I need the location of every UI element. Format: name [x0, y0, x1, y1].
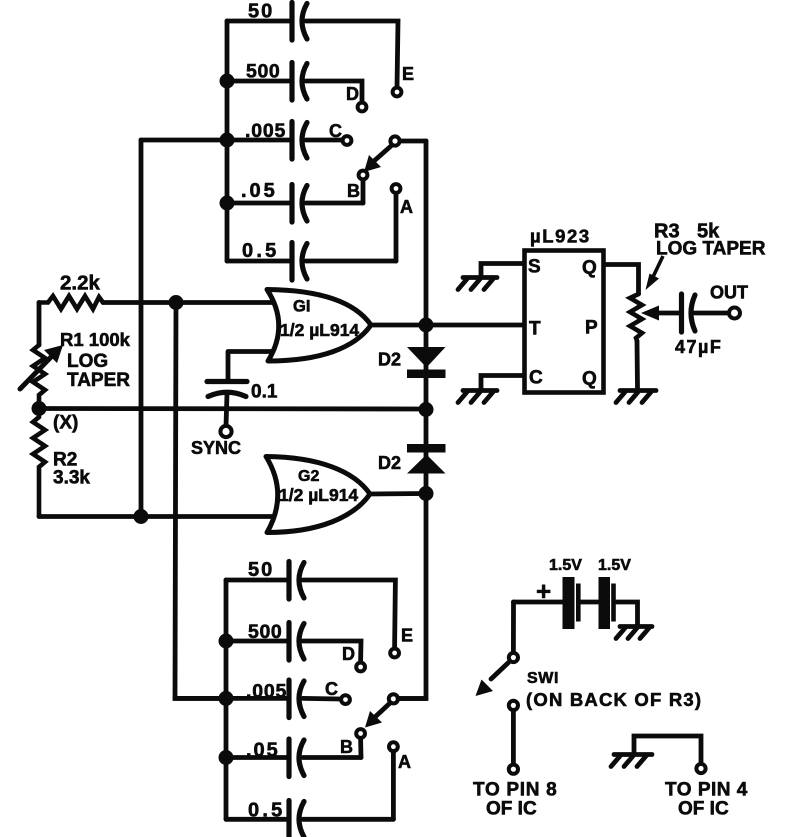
svg-text:1/2 µL914: 1/2 µL914: [279, 485, 358, 505]
svg-text:3.3k: 3.3k: [53, 468, 90, 489]
capacitor .05 (bottom): [289, 739, 304, 777]
contact A (bottom): [389, 742, 398, 751]
capacitor 50 (bottom): [289, 562, 304, 600]
svg-text:D2: D2: [378, 453, 401, 473]
svg-text:50: 50: [248, 1, 274, 23]
wire .005 row left (bottom): [175, 696, 287, 701]
wire 50 row left: [227, 19, 290, 24]
svg-text:.05: .05: [246, 740, 280, 762]
svg-text:SWI: SWI: [527, 670, 559, 687]
wire 2.2k row to G1 input: [103, 300, 276, 305]
wire 0.5 row right (bottom): [303, 817, 393, 822]
svg-text:Q: Q: [582, 258, 597, 279]
wire .05 row left: [227, 201, 290, 206]
wire B to .05 row: [361, 180, 366, 203]
svg-text:P: P: [585, 318, 598, 339]
capacitor 50: [292, 3, 307, 41]
wire battery to SW1: [511, 602, 516, 651]
wire .05 row right: [306, 201, 363, 206]
svg-text:E: E: [402, 64, 414, 84]
contact C: [343, 136, 352, 145]
svg-text:Q: Q: [582, 369, 597, 390]
potentiometer R3: [630, 294, 681, 341]
svg-text:OUT: OUT: [710, 283, 748, 303]
svg-text:50: 50: [248, 559, 274, 581]
svg-text:TO PIN 8: TO PIN 8: [473, 780, 557, 801]
contact A: [392, 184, 401, 193]
label R1 100k LOG TAPER: [60, 329, 131, 391]
node junction bus2 top: [169, 295, 184, 310]
wire battery left: [514, 600, 563, 605]
wire G1 lower input: [228, 352, 276, 380]
svg-text:G2: G2: [298, 468, 319, 485]
svg-text:1/2 µL914: 1/2 µL914: [280, 320, 359, 340]
svg-text:2.2k: 2.2k: [60, 272, 100, 295]
wire cap to SYNC terminal: [226, 394, 227, 426]
wire main vertical bus: [398, 141, 426, 699]
wire 500 row right to D: [306, 81, 362, 101]
resistor 2.2k: [39, 296, 103, 309]
node junction .005 row (bottom): [219, 691, 234, 706]
wire 50 row right to E (bottom): [303, 580, 395, 647]
wire 500 row left (bottom): [226, 639, 287, 644]
svg-text:SYNC: SYNC: [191, 438, 241, 458]
op-gate G2 1/2 uL914: [266, 457, 370, 533]
contact D (bottom): [356, 663, 365, 672]
wire 0.5 row left (bottom): [226, 817, 287, 822]
svg-text:D: D: [342, 644, 355, 664]
terminal to pin 4: [696, 764, 705, 773]
wire S pin to ground: [481, 264, 524, 277]
wire bottom bank left bus: [224, 580, 229, 819]
svg-text:0.1: 0.1: [251, 382, 278, 403]
capacitor .005: [292, 122, 307, 160]
svg-text:B: B: [347, 181, 360, 201]
svg-text:A: A: [400, 197, 413, 217]
terminal to pin 8: [509, 765, 518, 774]
wire R3 bottom to ground: [635, 341, 640, 389]
wire Q pin to R3: [604, 265, 639, 295]
svg-text:LOG: LOG: [67, 351, 108, 372]
node junction .05 row (bottom): [219, 750, 234, 765]
svg-text:E: E: [401, 626, 413, 646]
node X: [32, 401, 47, 416]
pointer arrow R3 label: [646, 256, 664, 290]
svg-text:OF IC: OF IC: [678, 799, 729, 820]
wire .005 row right to C: [306, 138, 341, 143]
switch SW1 blade: [476, 663, 509, 697]
svg-text:D2: D2: [378, 350, 401, 370]
wire 50 row right to E: [306, 21, 398, 87]
node junction G2 output: [419, 486, 434, 501]
svg-text:OF IC: OF IC: [486, 799, 537, 820]
wire top bank left bus: [225, 21, 230, 261]
switch SW1 lower contact: [509, 701, 518, 710]
wire battery right to ground: [616, 602, 638, 625]
wire A to 0.5 row (bottom): [391, 752, 396, 819]
wire B to .05 row (bottom): [358, 739, 363, 758]
svg-text:S: S: [528, 257, 541, 278]
svg-text:47µF: 47µF: [675, 337, 722, 357]
terminal OUT: [729, 308, 740, 319]
wire 0.5 row left: [227, 259, 290, 264]
capacitor 0.1: [207, 382, 247, 397]
terminal SYNC: [220, 426, 231, 437]
wire 0.5 row right: [306, 259, 396, 264]
node junction .005 row: [220, 133, 235, 148]
wire .005 row right to C (bottom): [303, 696, 340, 701]
wire 50 row left (bottom): [226, 578, 287, 583]
capacitor 0.5: [292, 243, 307, 281]
wire X row: [39, 406, 426, 411]
ground C pin: [458, 391, 497, 403]
svg-text:B: B: [340, 737, 353, 757]
diode D2 upper: [407, 347, 446, 378]
node junction 500 row: [220, 74, 235, 89]
svg-text:0.5: 0.5: [248, 800, 285, 822]
rotary switch common (bottom): [389, 694, 398, 703]
wire .05 row right (bottom): [303, 755, 361, 760]
svg-text:(ON BACK OF R3): (ON BACK OF R3): [526, 689, 702, 710]
diode D2 lower: [407, 444, 446, 474]
ground battery: [616, 627, 652, 639]
resistor R2: [33, 409, 45, 517]
wire 500 row left: [227, 79, 290, 84]
label TO PIN 4 OF IC: [665, 780, 748, 820]
op-gate G1 1/2 uL914: [267, 290, 371, 362]
wire A to 0.5 row: [394, 194, 399, 261]
switch wiper blade (top): [364, 146, 391, 172]
svg-text:R1 100k: R1 100k: [60, 329, 131, 350]
node junction diode mid: [419, 402, 434, 417]
node junction bus1 bottom: [134, 509, 149, 524]
svg-text:C: C: [329, 121, 342, 141]
wire SW1 contact to pin8 terminal: [511, 711, 516, 764]
wire .05 row left (bottom): [226, 755, 287, 760]
capacitor 0.5 (bottom): [289, 801, 304, 837]
contact B (bottom): [356, 729, 365, 738]
label 1.5V 1.5V: [549, 557, 631, 574]
contact C (bottom): [341, 695, 350, 704]
svg-text:GI: GI: [293, 298, 310, 316]
potentiometer R1: [20, 345, 63, 408]
capacitor .05: [292, 185, 307, 223]
wire G1 output to T pin: [371, 323, 524, 328]
svg-text:A: A: [398, 752, 411, 772]
switch wiper blade (bottom): [365, 704, 390, 728]
svg-text:(X): (X): [53, 413, 78, 434]
wire pin4 pigtail: [634, 736, 701, 763]
capacitor 500: [292, 63, 307, 101]
svg-text:.05: .05: [241, 180, 278, 202]
node junction G1 output: [419, 318, 434, 333]
label R2 3.3k: [53, 450, 90, 489]
rotary switch common (top): [390, 136, 399, 145]
IC uL923 box: [525, 251, 604, 393]
svg-text:1.5V: 1.5V: [549, 557, 582, 574]
svg-text:500: 500: [248, 621, 282, 643]
ground pin4 pigtail: [611, 755, 652, 767]
svg-text:0.5: 0.5: [242, 240, 279, 262]
svg-text:TO PIN 4: TO PIN 4: [665, 780, 748, 801]
svg-text:D: D: [346, 84, 359, 104]
wire .005 row left extension: [141, 138, 290, 143]
ground S pin: [458, 278, 497, 290]
capacitor 47uF: [682, 294, 696, 332]
label TO PIN 8 OF IC: [473, 780, 557, 820]
node junction .05 row: [220, 196, 235, 211]
battery cell 2: [599, 577, 616, 629]
wire C pin to ground: [481, 376, 524, 390]
wire between cells: [581, 600, 599, 605]
wire switch common to main bus: [400, 139, 426, 144]
contact D: [358, 103, 367, 112]
wire G2 output: [370, 491, 426, 496]
wire 500 row right to D (bottom): [303, 641, 361, 662]
svg-text:TAPER: TAPER: [67, 370, 130, 391]
contact E: [393, 88, 402, 97]
wire left drop to R1: [37, 303, 42, 346]
svg-text:µL923: µL923: [530, 226, 591, 247]
label R3 5k LOG TAPER: [654, 221, 766, 260]
wire vertical bus2: [175, 303, 226, 699]
battery cell 1: [563, 577, 581, 629]
ground R3: [616, 391, 656, 403]
svg-text:500: 500: [246, 61, 280, 83]
wire switch common to bus (bottom): [398, 696, 426, 701]
switch SW1 pivot: [509, 653, 518, 662]
contact B: [359, 171, 368, 180]
svg-text:T: T: [529, 319, 541, 340]
wire R2 bottom row to G2 input: [39, 514, 280, 519]
svg-text:C: C: [325, 679, 338, 699]
wire cap to OUT: [695, 311, 729, 316]
node junction 500 row (bottom): [219, 634, 234, 649]
svg-text:.005: .005: [246, 681, 287, 703]
capacitor 500 (bottom): [289, 623, 304, 661]
svg-text:.005: .005: [245, 120, 286, 142]
svg-text:1.5V: 1.5V: [598, 557, 631, 574]
capacitor .005 (bottom): [289, 680, 304, 718]
contact E (bottom): [390, 649, 399, 658]
svg-text:LOG TAPER: LOG TAPER: [656, 239, 766, 260]
wire vertical bus1: [139, 140, 144, 517]
svg-text:C: C: [529, 368, 543, 389]
